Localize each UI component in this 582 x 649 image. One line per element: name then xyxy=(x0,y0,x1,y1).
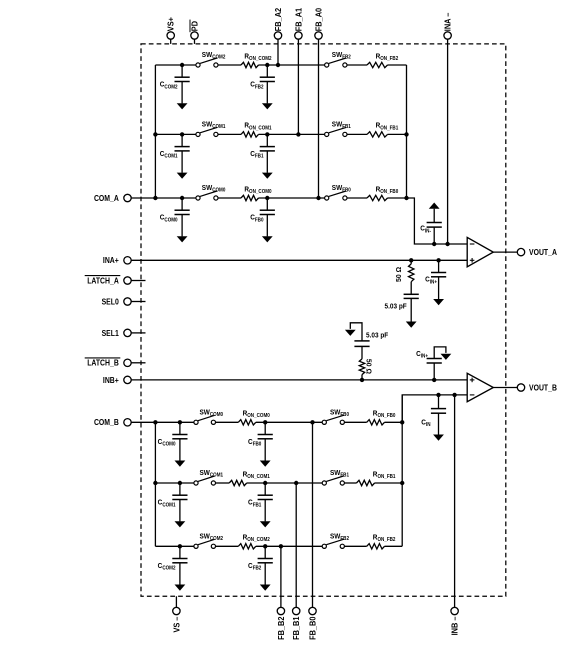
capacitor C_FB2 (channel B) xyxy=(258,546,273,590)
resistor R_ON_COM2 (channel B) xyxy=(238,544,256,549)
svg-text:ON_COM1: ON_COM1 xyxy=(249,125,272,131)
label C_COM1 xyxy=(158,498,176,509)
wire row B0 mid3 xyxy=(344,421,366,423)
label SW_FB1 xyxy=(330,468,349,479)
label FB_B2 xyxy=(277,616,286,640)
svg-text:ON_COM1: ON_COM1 xyxy=(247,474,270,480)
junction row A1 / FB_A1 xyxy=(296,132,300,136)
terminal VS- xyxy=(173,607,180,614)
svg-text:INB+: INB+ xyxy=(103,376,119,385)
resistor R_ON_FB0 (channel A) xyxy=(367,195,388,200)
wire SEL0 stub xyxy=(131,301,145,303)
junction row A0 / left rail xyxy=(153,196,157,200)
label 50 ohm (channel A) xyxy=(394,267,403,282)
junction row A2 / C_FB2 xyxy=(265,63,269,67)
svg-text:FB0: FB0 xyxy=(253,442,262,448)
wire VS+ stub xyxy=(170,39,172,44)
wire row A1 mid3 xyxy=(347,133,367,135)
junction C_IN+ / INA+ line xyxy=(436,258,440,262)
label FB_A2 xyxy=(274,7,283,31)
terminal FB_B1 xyxy=(293,607,300,614)
junction C_IN+ / INB+ line xyxy=(432,378,436,382)
label INA- xyxy=(444,12,453,31)
label C_COM2 xyxy=(160,80,178,91)
label SW_FB0 xyxy=(332,183,351,194)
capacitor C_FB0 (channel B) xyxy=(258,422,273,466)
wire left rail B xyxy=(154,422,156,546)
junction 50ohm chain / INB+ line xyxy=(360,378,364,382)
wire LATCH_B stub xyxy=(131,362,145,364)
svg-text:COM2: COM2 xyxy=(212,55,225,61)
label C_IN (channel B) xyxy=(421,417,430,428)
svg-text:FB_A0: FB_A0 xyxy=(314,7,323,31)
label C_IN+ (channel B) xyxy=(416,349,428,360)
wire row A1 mid1 xyxy=(218,133,241,135)
wire row A2 left xyxy=(155,64,196,66)
wire row A2 mid2 xyxy=(259,64,325,66)
svg-text:FB2: FB2 xyxy=(253,566,262,572)
junction row B1 / FB_B1 xyxy=(294,481,298,485)
svg-text:FB1: FB1 xyxy=(253,502,262,508)
series 50 ohm + 5.03pF snubber (channel A) xyxy=(410,260,412,264)
svg-text:PD: PD xyxy=(190,21,199,31)
svg-text:IN: IN xyxy=(426,422,431,428)
svg-text:COM0: COM0 xyxy=(212,188,225,194)
junction 50ohm chain / INA+ line xyxy=(409,258,413,262)
label R_ON_COM2 xyxy=(243,533,270,544)
switch SW_FB0 (channel B) xyxy=(322,415,344,424)
wire op-amp B inverting feed xyxy=(402,395,467,422)
switch SW_FB1 (channel A) xyxy=(325,127,347,136)
wire right rail A xyxy=(406,65,408,198)
wire LATCH_A stub xyxy=(131,280,145,282)
label C_FB0 xyxy=(248,437,261,448)
svg-text:COM1: COM1 xyxy=(210,473,223,479)
op-amp B xyxy=(467,373,493,401)
svg-text:FB2: FB2 xyxy=(255,84,264,90)
terminal SEL1 xyxy=(124,329,131,336)
capacitor C_FB1 (channel B) xyxy=(258,483,273,527)
terminal SEL0 xyxy=(124,298,131,305)
resistor 50 ohm (channel B) xyxy=(359,359,364,375)
label R_ON_COM2 xyxy=(244,51,271,62)
junction row A2 / FB_A2 xyxy=(276,63,280,67)
svg-text:ON_COM0: ON_COM0 xyxy=(249,189,272,195)
switch SW_COM2 (channel B) xyxy=(194,539,216,548)
svg-text:COM0: COM0 xyxy=(164,217,177,223)
wire row A0 right xyxy=(388,197,407,199)
wire row B2 mid3 xyxy=(344,545,366,547)
label FB_A0 xyxy=(314,7,323,31)
wire row A2 mid3 xyxy=(347,64,367,66)
label C_IN+ (channel A) xyxy=(425,275,437,286)
junction C_IN- / inverting wire xyxy=(432,242,436,246)
label SW_COM1 xyxy=(200,468,224,479)
resistor R_ON_COM1 (channel A) xyxy=(241,132,259,137)
capacitor C_FB1 (channel A) xyxy=(260,134,275,178)
wire op-amp B output xyxy=(493,387,517,389)
wire row B0 left xyxy=(131,421,194,423)
label R_ON_FB2 xyxy=(376,51,399,62)
label SW_FB1 xyxy=(332,120,351,131)
junction row B1 / left rail xyxy=(153,481,157,485)
switch SW_COM0 (channel B) xyxy=(194,415,216,424)
svg-text:ON_FB1: ON_FB1 xyxy=(380,125,398,131)
label C_FB0 xyxy=(250,213,263,224)
switch SW_COM0 (channel A) xyxy=(196,191,218,200)
label C_FB1 xyxy=(250,149,263,160)
terminal COM_B xyxy=(124,419,131,426)
junction row A1 / right rail xyxy=(404,132,408,136)
capacitor C_COM0 (channel A) xyxy=(175,198,190,242)
wire INA+ line xyxy=(131,259,467,261)
wire row A0 left xyxy=(131,197,196,199)
wire row B2 left xyxy=(155,545,194,547)
wire row B1 right xyxy=(375,482,403,484)
wire op-amp A inverting feed xyxy=(407,198,468,244)
svg-text:ON_FB2: ON_FB2 xyxy=(380,56,398,62)
capacitor 5.03pF (channel B) xyxy=(345,323,370,359)
junction row A1 / left rail xyxy=(153,132,157,136)
label SW_COM2 xyxy=(202,50,226,61)
terminal INA+ xyxy=(124,257,131,264)
wire row B0 mid1 xyxy=(216,421,239,423)
wire INB- rail xyxy=(454,395,456,607)
svg-text:COM1: COM1 xyxy=(162,502,175,508)
wire row B1 mid1 xyxy=(216,482,230,484)
svg-text:ON_FB0: ON_FB0 xyxy=(377,413,395,419)
wire row A0 mid2 xyxy=(259,197,325,199)
svg-text:LATCH_B: LATCH_B xyxy=(87,359,119,368)
terminal FB_A2 xyxy=(274,32,281,39)
resistor R_ON_FB1 (channel A) xyxy=(367,132,388,137)
label SW_COM2 xyxy=(200,531,224,542)
capacitor C_IN+ (channel B) xyxy=(427,347,452,380)
junction row B2 / C_COM2 xyxy=(178,544,182,548)
svg-text:50 Ω: 50 Ω xyxy=(394,267,403,282)
junction row A2 / C_COM2 xyxy=(180,63,184,67)
resistor R_ON_COM0 (channel B) xyxy=(238,420,256,425)
label SW_COM1 xyxy=(202,120,226,131)
capacitor C_COM2 (channel B) xyxy=(172,546,187,590)
resistor R_ON_FB0 (channel B) xyxy=(367,420,385,425)
label C_COM2 xyxy=(158,561,176,572)
wire row B2 mid2 xyxy=(256,545,322,547)
svg-text:ON_FB2: ON_FB2 xyxy=(377,537,395,543)
wire row B1 mid3 xyxy=(344,482,356,484)
svg-text:VOUT_A: VOUT_A xyxy=(529,248,557,257)
junction row B0 / FB_B0 xyxy=(310,420,314,424)
svg-text:ON_COM0: ON_COM0 xyxy=(247,413,270,419)
wire FB_B1 rail xyxy=(295,483,297,607)
resistor 50 ohm (channel A) xyxy=(409,264,414,282)
label INB- xyxy=(451,616,460,635)
capacitor C_FB0 (channel A) xyxy=(260,198,275,242)
wire row A2 mid1 xyxy=(218,64,241,66)
terminal VOUT_B xyxy=(517,384,524,391)
svg-text:FB0: FB0 xyxy=(340,412,349,418)
capacitor C_FB2 (channel A) xyxy=(260,65,275,109)
svg-text:FB_A2: FB_A2 xyxy=(274,7,283,31)
wire row A2 right xyxy=(388,64,407,66)
svg-text:IN-: IN- xyxy=(425,228,431,234)
terminal FB_A0 xyxy=(315,32,322,39)
wire row A1 right xyxy=(388,133,407,135)
capacitor C_COM1 (channel B) xyxy=(172,483,187,527)
wire FB_A0 rail xyxy=(318,39,320,198)
svg-text:COM1: COM1 xyxy=(212,124,225,130)
svg-text:FB_B2: FB_B2 xyxy=(277,616,286,640)
wire op-amp A output xyxy=(493,251,517,253)
label C_COM0 xyxy=(158,437,176,448)
capacitor C_IN+ (channel A) xyxy=(431,260,446,305)
label VS- xyxy=(172,616,181,632)
wire row A1 left xyxy=(155,133,196,135)
svg-text:FB2: FB2 xyxy=(342,55,351,61)
capacitor C_IN (channel B) xyxy=(431,395,446,441)
switch SW_COM2 (channel A) xyxy=(196,58,218,67)
label FB_B0 xyxy=(308,616,317,640)
svg-text:INA –: INA – xyxy=(444,12,453,31)
terminal INB+ xyxy=(124,376,131,383)
terminal LATCH_A xyxy=(124,277,131,284)
junction row B0 / right rail xyxy=(400,420,404,424)
svg-text:COM1: COM1 xyxy=(164,154,177,160)
svg-text:COM2: COM2 xyxy=(164,84,177,90)
switch SW_COM1 (channel B) xyxy=(194,476,216,485)
svg-text:FB1: FB1 xyxy=(342,124,351,130)
svg-text:IN+: IN+ xyxy=(430,279,437,285)
junction row A0 / C_FB0 xyxy=(265,196,269,200)
junction row A0 / C_COM0 xyxy=(180,196,184,200)
junction INB- / inverting wire B xyxy=(452,393,456,397)
terminal FB_A1 xyxy=(295,32,302,39)
svg-text:LATCH_A: LATCH_A xyxy=(87,276,119,285)
svg-text:VS+: VS+ xyxy=(167,17,176,31)
switch SW_FB0 (channel A) xyxy=(325,191,347,200)
wire row B1 mid2 xyxy=(247,482,323,484)
label FB_A1 xyxy=(294,7,303,31)
label R_ON_COM0 xyxy=(244,184,271,195)
label SW_FB2 xyxy=(332,50,351,61)
label PD (active low, overline) xyxy=(190,20,199,33)
wire left rail A xyxy=(154,65,156,198)
resistor R_ON_FB2 (channel B) xyxy=(367,544,385,549)
label R_ON_COM1 xyxy=(243,469,270,480)
svg-text:COM2: COM2 xyxy=(210,536,223,542)
svg-text:FB1: FB1 xyxy=(255,154,264,160)
svg-text:FB0: FB0 xyxy=(342,188,351,194)
svg-text:VS –: VS – xyxy=(172,616,181,632)
svg-text:FB_A1: FB_A1 xyxy=(294,7,303,31)
label R_ON_FB1 xyxy=(373,469,396,480)
label SW_COM0 xyxy=(202,183,226,194)
svg-text:FB0: FB0 xyxy=(255,217,264,223)
svg-text:ON_COM2: ON_COM2 xyxy=(249,56,272,62)
junction row A1 / C_COM1 xyxy=(180,132,184,136)
switch SW_FB2 (channel B) xyxy=(322,539,344,548)
wire PD stub xyxy=(194,39,196,44)
junction row B1 / C_FB1 xyxy=(263,481,267,485)
wire FB_A1 rail xyxy=(297,39,299,134)
label 50 ohm (channel B) xyxy=(365,359,374,374)
svg-text:FB_B0: FB_B0 xyxy=(308,616,317,640)
svg-text:VOUT_B: VOUT_B xyxy=(529,384,557,393)
capacitor 5.03pF (channel A) xyxy=(404,282,419,328)
junction row B0 / left rail xyxy=(153,420,157,424)
wire row B0 mid2 xyxy=(256,421,322,423)
terminal INA- xyxy=(444,32,451,39)
junction row B0 / C_FB0 xyxy=(263,420,267,424)
label R_ON_COM1 xyxy=(244,121,271,132)
svg-text:50 Ω: 50 Ω xyxy=(365,359,374,374)
svg-text:IN+: IN+ xyxy=(421,353,428,359)
svg-text:COM2: COM2 xyxy=(162,566,175,572)
svg-text:SEL1: SEL1 xyxy=(102,329,120,338)
label C_FB2 xyxy=(248,561,261,572)
svg-text:INA+: INA+ xyxy=(103,256,119,265)
capacitor C_COM2 (channel A) xyxy=(175,65,190,109)
resistor R_ON_COM1 (channel B) xyxy=(229,480,247,485)
overline (active low) xyxy=(85,275,121,277)
svg-text:INB –: INB – xyxy=(451,616,460,635)
switch SW_FB2 (channel A) xyxy=(325,58,347,67)
label FB_B1 xyxy=(292,616,301,640)
wire INA- rail xyxy=(447,39,449,244)
IC package dashed boundary xyxy=(141,44,506,596)
label R_ON_FB0 xyxy=(376,184,399,195)
switch SW_COM1 (channel A) xyxy=(196,127,218,136)
junction row A0 / right rail xyxy=(404,196,408,200)
label SW_FB2 xyxy=(330,531,349,542)
series 50 ohm + 5.03pF snubber (channel B) xyxy=(361,375,363,380)
resistor R_ON_COM0 (channel A) xyxy=(241,195,259,200)
junction INA- / inverting wire xyxy=(445,242,449,246)
svg-text:COM0: COM0 xyxy=(162,442,175,448)
resistor R_ON_FB1 (channel B) xyxy=(357,480,375,485)
wire INB+ line xyxy=(131,379,467,381)
terminal PD xyxy=(191,32,198,39)
label R_ON_FB2 xyxy=(373,533,396,544)
wire row A1 mid2 xyxy=(259,133,325,135)
overline (active low) xyxy=(85,357,121,359)
label C_COM1 xyxy=(160,149,178,160)
label C_FB1 xyxy=(248,498,261,509)
terminal VS+ xyxy=(167,32,174,39)
wire FB_B0 rail xyxy=(312,422,314,607)
wire right rail B xyxy=(401,395,403,546)
junction row B2 / FB_B2 xyxy=(279,544,283,548)
terminal FB_B0 xyxy=(309,607,316,614)
svg-text:FB2: FB2 xyxy=(340,536,349,542)
capacitor C_COM0 (channel B) xyxy=(172,422,187,466)
svg-text:COM0: COM0 xyxy=(210,412,223,418)
label R_ON_FB0 xyxy=(373,409,396,420)
svg-text:COM_B: COM_B xyxy=(94,418,119,427)
svg-text:ON_FB0: ON_FB0 xyxy=(380,189,398,195)
svg-text:COM_A: COM_A xyxy=(94,194,119,203)
wire row B0 right xyxy=(385,421,403,423)
junction row A1 / C_FB1 xyxy=(265,132,269,136)
junction row A0 / FB_A0 xyxy=(316,196,320,200)
resistor R_ON_FB2 (channel A) xyxy=(367,62,388,67)
label C_COM0 xyxy=(160,213,178,224)
wire row B2 right xyxy=(385,545,403,547)
wire VS- stub xyxy=(175,596,177,607)
svg-text:SEL0: SEL0 xyxy=(102,297,120,306)
svg-text:ON_COM2: ON_COM2 xyxy=(247,537,270,543)
switch SW_FB1 (channel B) xyxy=(322,476,344,485)
label R_ON_COM0 xyxy=(243,409,270,420)
wire row B2 mid1 xyxy=(216,545,239,547)
svg-text:5.03 pF: 5.03 pF xyxy=(366,331,389,340)
label C_FB2 xyxy=(250,80,263,91)
terminal VOUT_A xyxy=(517,248,524,255)
junction row B1 / right rail xyxy=(400,481,404,485)
svg-text:5.03 pF: 5.03 pF xyxy=(385,302,408,311)
terminal INB- xyxy=(451,607,458,614)
wire FB_A2 rail xyxy=(277,39,279,65)
op-amp A xyxy=(467,237,493,266)
capacitor C_COM1 (channel A) xyxy=(175,134,190,178)
label VS+ xyxy=(167,17,176,31)
terminal LATCH_B xyxy=(124,359,131,366)
capacitor C_IN- (channel A) xyxy=(427,203,442,245)
wire row B1 left xyxy=(155,482,194,484)
label SW_COM0 xyxy=(200,407,224,418)
resistor R_ON_COM2 (channel A) xyxy=(241,62,259,67)
label SW_FB0 xyxy=(330,407,349,418)
svg-text:ON_FB1: ON_FB1 xyxy=(377,474,395,480)
svg-text:FB1: FB1 xyxy=(340,473,349,479)
junction row B1 / C_COM1 xyxy=(178,481,182,485)
svg-text:FB_B1: FB_B1 xyxy=(292,616,301,640)
wire FB_B2 rail xyxy=(280,546,282,607)
wire SEL1 stub xyxy=(131,332,145,334)
junction row B2 / C_FB2 xyxy=(263,544,267,548)
junction row B0 / C_COM0 xyxy=(178,420,182,424)
label C_IN- xyxy=(420,224,431,235)
terminal COM_A xyxy=(124,194,131,201)
wire row A0 mid1 xyxy=(218,197,241,199)
terminal FB_B2 xyxy=(277,607,284,614)
label R_ON_FB1 xyxy=(376,121,399,132)
junction C_IN / inverting wire B xyxy=(436,393,440,397)
wire row A0 mid3 xyxy=(347,197,367,199)
